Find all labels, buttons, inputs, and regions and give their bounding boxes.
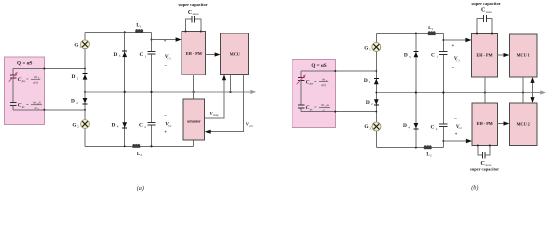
- svg-text:4: 4: [408, 125, 410, 129]
- svg-text:C: C: [140, 52, 144, 58]
- svg-text:2: 2: [430, 153, 432, 157]
- svg-text:super capacitor: super capacitor: [472, 1, 501, 6]
- capacitor C2 (a): [147, 123, 155, 125]
- svg-text:−: −: [451, 66, 454, 71]
- wire top rail (a): [85, 31, 152, 33]
- capacitor Cpw symbol (b): [298, 77, 305, 80]
- svg-text:(a): (a): [137, 185, 144, 192]
- TENG model box (a): [5, 57, 45, 125]
- arrow bottom EH-PM to MCU2 (b): [498, 123, 505, 125]
- svg-text:+: +: [451, 44, 454, 49]
- actuator box (a): [183, 99, 205, 140]
- svg-text:4: 4: [117, 125, 119, 129]
- arrow EH-PM to MCU1 (b): [498, 54, 505, 56]
- svg-text:C1: C1: [168, 57, 172, 60]
- wire top rail (b): [376, 33, 443, 35]
- capacitor Cpw symbol (a): [10, 75, 17, 78]
- svg-text:actuator: actuator: [187, 119, 201, 123]
- svg-text:C: C: [139, 123, 143, 129]
- EH-PM box (a): [182, 32, 206, 75]
- wire bottom rail (b): [376, 147, 443, 149]
- svg-text:super capacitor: super capacitor: [470, 166, 499, 171]
- wire MCU1 to MCU2 power link (b): [522, 77, 524, 103]
- node dots bottom rail (a): [124, 145, 126, 147]
- svg-text:2: 2: [76, 101, 78, 105]
- svg-text:3: 3: [409, 55, 411, 59]
- svg-text:−: −: [164, 64, 167, 69]
- svg-text:Q = αS: Q = αS: [311, 63, 326, 69]
- svg-text:1: 1: [369, 48, 371, 52]
- inductor L1 (a): [135, 30, 143, 33]
- svg-text:2: 2: [144, 125, 146, 129]
- node dot top rail / D3 line (a): [124, 31, 126, 33]
- wire V_ctrl drive to actuator with arrow (a): [210, 74, 244, 131]
- svg-text:(b): (b): [471, 184, 478, 191]
- svg-text:C: C: [188, 10, 192, 16]
- wire MCU power from middle line (a): [230, 74, 232, 92]
- node dots on middle line (a): [84, 91, 86, 93]
- wire bottom rail (a): [85, 140, 193, 146]
- svg-text:D: D: [71, 99, 75, 105]
- wire V_setup sense with up arrow into MCU (a): [205, 80, 224, 119]
- wire top EH-PM bottom to bottom EH-PM top (b): [484, 77, 486, 103]
- node dot corner to bottom EH-PM feed (b): [442, 140, 444, 142]
- arrow middle line output (a): [250, 90, 256, 94]
- svg-text:1: 1: [140, 24, 142, 28]
- svg-text:2: 2: [369, 126, 371, 130]
- svg-text:C: C: [431, 125, 435, 131]
- svg-text:C2: C2: [168, 125, 172, 128]
- svg-text:ctrl: ctrl: [249, 125, 253, 128]
- supercapacitor Cstore top wiring (b): [477, 18, 492, 33]
- svg-text:C1: C1: [457, 59, 461, 62]
- capacitor Cds symbol (b): [298, 105, 305, 108]
- svg-text:+: +: [164, 39, 167, 44]
- diode D3 (b): [413, 50, 418, 52]
- wire TENG top terminal (b): [301, 70, 376, 72]
- wire C1-C2 vertical line (a): [151, 32, 153, 146]
- MCU 1 box (b): [510, 34, 538, 77]
- diode D4 (a): [122, 122, 127, 127]
- diode D2 (a): [83, 98, 88, 103]
- generator G1 (b): [372, 43, 381, 52]
- wire left rail (a): [84, 32, 86, 146]
- wire feed to EH-PM with arrow (a): [152, 39, 177, 41]
- svg-text:D: D: [403, 123, 407, 129]
- svg-text:2: 2: [77, 125, 79, 129]
- svg-text:+: +: [164, 131, 167, 136]
- capacitor C1 (a): [147, 51, 155, 54]
- node dot top rail / D3 line (b): [415, 33, 417, 35]
- svg-text:2: 2: [371, 102, 373, 106]
- wire middle output line (a): [85, 91, 251, 93]
- svg-text:D: D: [112, 122, 116, 128]
- svg-text:1: 1: [145, 54, 147, 58]
- MCU 2 box (b): [510, 103, 538, 146]
- MCU box (a): [221, 33, 249, 74]
- svg-text:D: D: [72, 74, 76, 80]
- wire C1-C2 vertical line (b): [442, 34, 444, 148]
- svg-text:2: 2: [141, 153, 143, 157]
- inductor L2 (b): [424, 146, 432, 149]
- wire middle output line (b): [376, 92, 541, 94]
- svg-text:super capacitor: super capacitor: [179, 2, 208, 7]
- node dot corner to EH-PM feed (a): [151, 39, 153, 41]
- generator G2 (b): [372, 122, 381, 131]
- svg-text:MCU 1: MCU 1: [517, 52, 530, 57]
- svg-text:store: store: [193, 12, 200, 16]
- wire MCU1-MCU2 double arrow link (b): [532, 81, 534, 99]
- svg-text:Q = αS: Q = αS: [17, 61, 32, 67]
- wire feed to bottom EH-PM with arrow (b): [443, 140, 466, 142]
- wire EH-PM bottom to actuator (a): [193, 75, 195, 99]
- wire TENG internal vertical (a): [12, 69, 14, 110]
- svg-text:1: 1: [77, 76, 79, 80]
- svg-text:1: 1: [369, 80, 371, 84]
- svg-text:1: 1: [432, 27, 434, 31]
- diode D4 (b): [414, 123, 419, 128]
- svg-text:MCU: MCU: [230, 51, 240, 56]
- svg-text:EH - PM: EH - PM: [186, 51, 202, 56]
- wire TENG bottom terminal (b): [301, 111, 376, 113]
- generator G1 (a): [81, 40, 90, 49]
- EH-PM box bottom (b): [472, 103, 498, 146]
- wire D3-D4 vertical line (b): [415, 34, 417, 148]
- wire left rail (b): [375, 34, 377, 148]
- capacitor C1 (b): [439, 52, 447, 55]
- inductor L2 (a): [132, 145, 140, 148]
- svg-text:EH - PM: EH - PM: [477, 121, 493, 126]
- svg-text:3: 3: [119, 54, 121, 58]
- supercapacitor Cstore wiring (a): [186, 19, 201, 32]
- EH-PM box top (b): [472, 34, 498, 78]
- TENG model box (b): [292, 59, 335, 127]
- wire D3-D4 vertical line (a): [124, 32, 126, 146]
- diode D3 (a): [122, 50, 127, 52]
- svg-text:MCU 2: MCU 2: [517, 121, 530, 126]
- inductor L1 (b): [428, 32, 436, 35]
- node junction dots left rail (b): [375, 70, 377, 72]
- capacitor Cds symbol (a): [10, 103, 17, 106]
- arrow middle line output (b): [540, 90, 546, 94]
- diode D1 (b): [374, 77, 379, 79]
- svg-text:C: C: [431, 52, 435, 58]
- svg-text:D: D: [114, 52, 118, 58]
- svg-text:D: D: [364, 78, 368, 84]
- svg-text:pw: pw: [309, 82, 313, 86]
- svg-text:pw: pw: [21, 79, 25, 83]
- node dot bottom rail (b): [415, 147, 417, 149]
- wire feed to top EH-PM with arrow (b): [443, 39, 466, 41]
- svg-text:store: store: [486, 10, 493, 14]
- capacitor C2 (b): [439, 124, 447, 126]
- svg-text:−: −: [454, 117, 457, 122]
- svg-text:1: 1: [436, 55, 438, 59]
- svg-text:−: −: [164, 114, 167, 119]
- diode D2 (b): [374, 99, 379, 104]
- diode D1 (a): [83, 73, 88, 75]
- wire TENG bottom terminal (a): [13, 105, 85, 109]
- svg-text:+: +: [455, 133, 458, 138]
- wire TENG top terminal (a): [13, 68, 85, 70]
- arrow EH-PM to MCU (a): [205, 54, 215, 56]
- variable capacitor arrow (a): [9, 73, 17, 82]
- svg-text:C: C: [481, 8, 485, 14]
- svg-text:setup: setup: [213, 114, 219, 117]
- svg-text:2: 2: [436, 127, 438, 131]
- supercapacitor Cstore bottom wiring (b): [478, 146, 490, 156]
- node dot corner to top EH-PM feed (b): [442, 39, 444, 41]
- svg-text:EH - PM: EH - PM: [476, 53, 492, 58]
- svg-text:C2: C2: [459, 127, 463, 130]
- node dots on middle line (b): [375, 92, 377, 94]
- wire TENG internal vertical (b): [300, 71, 302, 112]
- svg-text:D: D: [404, 53, 408, 59]
- svg-text:D: D: [366, 100, 370, 106]
- node junction dots left rail (a): [84, 68, 86, 70]
- generator G2 (a): [81, 120, 90, 129]
- variable capacitor arrow (b): [297, 76, 305, 85]
